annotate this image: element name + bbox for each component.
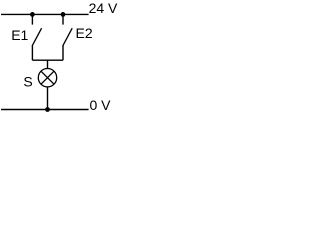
wire 0V return rail (1, 109, 89, 111)
wire parallel junction connector (32, 59, 63, 61)
svg-text:E1: E1 (11, 27, 28, 43)
wire E1 top terminal (31, 14, 33, 24)
wire E2 top terminal (62, 14, 64, 24)
junction E2 branch on 24V rail (61, 12, 66, 17)
svg-text:S: S (23, 73, 32, 89)
wire 24V supply rail (1, 13, 89, 15)
switch E2 (63, 28, 72, 45)
svg-text:E2: E2 (76, 25, 93, 41)
wire E1 bottom terminal (31, 45, 33, 60)
switch E1 (32, 28, 41, 45)
wire E2 bottom terminal (62, 45, 64, 60)
svg-text:0 V: 0 V (90, 97, 112, 113)
lamp S (38, 69, 56, 87)
junction E1 branch on 24V rail (30, 12, 35, 17)
wire lamp to 0V rail (47, 87, 49, 110)
wire lamp feed (47, 60, 49, 68)
svg-text:24 V: 24 V (89, 0, 118, 16)
junction lamp on 0V rail (45, 107, 50, 112)
